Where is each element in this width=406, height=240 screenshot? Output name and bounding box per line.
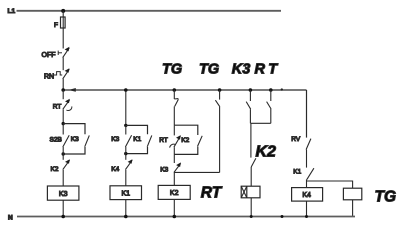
svg-text:K2: K2 [256,143,277,160]
contact K2 (NC interlock) [51,154,70,186]
svg-text:OFF: OFF [42,52,56,59]
timer contact RT (NC, delayed) on main branch [53,90,72,124]
contact K1 (NO) [293,168,314,187]
pushbutton OFF (NC) [42,47,70,70]
svg-text:N: N [8,214,13,221]
svg-text:S2B: S2B [50,137,62,144]
pushbutton S2B (NO) [50,124,70,154]
node junction K3/N [61,215,65,219]
node junction K4/N [305,215,308,218]
contact K3 (NO) upper [246,90,251,123]
contact K2 (NO) before timer coil [251,158,256,186]
wire K1 coil to N [125,200,127,217]
svg-text:K1: K1 [293,168,301,175]
wire mid control bus [63,89,306,91]
svg-text:TG: TG [162,62,182,78]
timer coil RT (box with X element) [241,186,260,198]
svg-text:K3: K3 [59,191,68,198]
wire TG2 branch joins branch3 [174,171,219,173]
svg-text:RN: RN [44,74,54,81]
contact RV (NO) [291,136,311,168]
svg-text:F: F [54,22,58,29]
wire main drop through fuse [62,11,64,49]
node junction K2/N [173,215,177,219]
wire K2 coil to N [173,199,175,216]
contact TG (NO) second [215,90,220,172]
wire K4 coil to N [306,201,308,216]
device TG (box) [343,188,361,200]
wire branch1 parallel box [63,124,85,135]
svg-text:TG: TG [375,189,397,206]
contact RT (NO) upper [267,90,272,123]
wire parallel tap to TG device [307,181,353,188]
wire drop to K2 contact [250,123,252,157]
node branch1 bottom junction [62,152,65,155]
contact K3 (NO) [111,125,131,153]
node junction on L1 bus [61,9,65,13]
thermal overload contact RN (NC) [44,68,69,90]
wire K3 coil to N [62,200,64,216]
node arrow mark on mid bus [68,88,76,92]
contact TG (NO) branch3 top [174,90,178,125]
node junction RTtop/mid-bus [269,88,273,92]
node stray dot mid bus [281,88,283,90]
timer contact RT (NC delayed) [159,125,181,154]
node junction K3top/mid-bus [249,88,253,92]
coil K1 [110,186,142,200]
node stray dot N bus [281,215,284,218]
svg-text:K4: K4 [111,166,119,173]
node junction branch2/mid-bus [124,88,128,92]
svg-text:RT: RT [159,137,168,144]
svg-text:TG: TG [199,62,219,78]
wire L1 top bus [17,10,282,12]
svg-text:K2: K2 [181,137,189,144]
contact K2 (NO) [181,136,202,147]
node branch2 bottom junction [124,152,127,155]
svg-text:K4: K4 [302,192,311,199]
svg-text:K2: K2 [170,190,179,197]
svg-text:K1: K1 [122,190,131,197]
svg-text:K1: K1 [133,136,141,143]
svg-text:RT: RT [201,184,223,201]
node branch1 top junction [62,122,65,125]
svg-text:RT: RT [53,104,62,111]
node junction K1/N [124,215,128,219]
fuse F [61,17,66,28]
svg-text:L1: L1 [8,8,16,15]
svg-text:RT: RT [255,62,281,78]
contact K3 (NO, self holding) [71,135,90,146]
contact K3 (NC) [160,154,181,185]
node branch2 top junction [124,124,127,127]
wire N bottom bus [17,216,355,218]
wire K3/RT parallel join [250,122,270,124]
node junction branch3/mid-bus [173,88,177,92]
wire mid-bus right corner drop [306,90,308,138]
svg-text:K3: K3 [232,62,251,78]
node junction main/mid-bus [61,88,65,92]
wire RT coil to N [250,198,252,217]
node junction RTcoil/N [250,215,253,218]
contact K1 (NO) [133,135,152,146]
wire TG device to N [352,200,354,217]
contact K4 (NC interlock) [111,154,132,186]
coil K2 [158,185,190,199]
svg-text:K3: K3 [160,166,168,173]
coil K4 [292,188,323,202]
node junction TG2/mid-bus [218,88,222,92]
wire branch2 parallel box [126,125,148,134]
coil K3 [47,186,79,200]
svg-text:RV: RV [291,136,301,143]
wire branch3 parallel box [174,125,198,135]
wire branch2 drop [125,90,127,125]
svg-text:K3: K3 [111,136,119,143]
svg-text:K2: K2 [51,166,59,173]
svg-text:K3: K3 [71,136,79,143]
